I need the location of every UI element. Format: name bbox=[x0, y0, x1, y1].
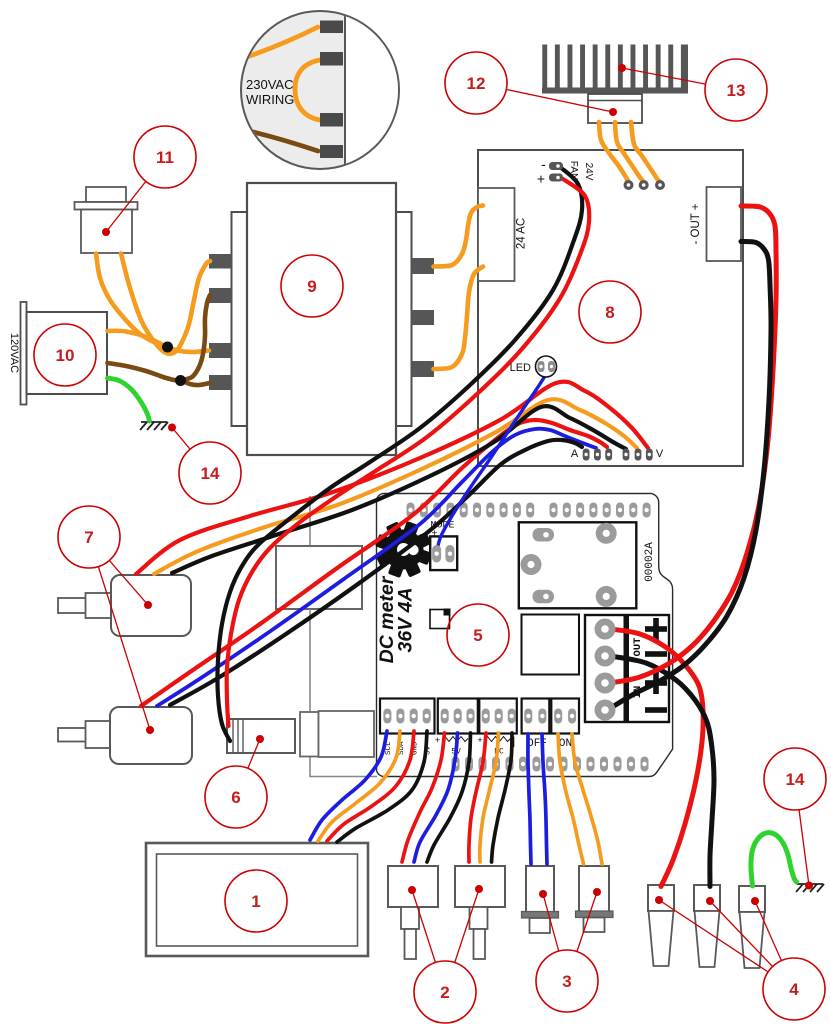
terminal block2 5V bbox=[438, 699, 478, 734]
USB connector bbox=[276, 546, 362, 609]
wire blue switchB to pin A2 bbox=[157, 429, 596, 706]
terminal mag 2 bbox=[320, 52, 343, 66]
svg-text:8: 8 bbox=[605, 303, 614, 322]
terminal block5 ON bbox=[551, 699, 579, 734]
connector 3b bbox=[576, 866, 614, 932]
pad row top group1 bbox=[407, 503, 535, 518]
callout circle 9 bbox=[281, 255, 343, 317]
wire black buttonB bbox=[492, 733, 513, 862]
svg-text:10: 10 bbox=[56, 346, 75, 365]
wire blue buttonA bbox=[414, 733, 458, 862]
callout circle 4 bbox=[763, 958, 825, 1020]
wire brown mag bbox=[236, 128, 318, 151]
wire orange transformer R3 to 24AC bbox=[434, 267, 484, 370]
svg-text:LED: LED bbox=[510, 362, 531, 374]
push button 2b bbox=[455, 866, 505, 959]
wire blue OFF b bbox=[542, 734, 547, 864]
connector 24AC bbox=[478, 188, 515, 281]
AC inlet 10 bbox=[8, 302, 107, 405]
terminal mag 1 bbox=[320, 21, 343, 34]
wire blue display bbox=[310, 731, 387, 840]
wire red FAN to barrel bbox=[227, 179, 590, 726]
wire black OUTminus to probe B bbox=[610, 656, 714, 887]
switch 7b bbox=[58, 707, 192, 764]
pin L3 bbox=[209, 343, 232, 358]
arduino edge above USB bbox=[309, 496, 311, 546]
svg-text:9: 9 bbox=[307, 277, 316, 296]
callout circle 12 bbox=[445, 52, 507, 114]
svg-text:120VAC: 120VAC bbox=[8, 333, 20, 373]
wire orange junction to pin L3 bbox=[167, 347, 209, 352]
terminal block4 OFF bbox=[522, 699, 550, 734]
pin R1 bbox=[412, 258, 435, 274]
svg-text:14: 14 bbox=[201, 464, 220, 483]
pin R2 bbox=[412, 310, 435, 325]
wire orange fuse11 to pin L1 bbox=[121, 254, 210, 354]
display 1 bbox=[146, 843, 368, 956]
callout circle 14 left bbox=[179, 442, 241, 504]
line to 13 bbox=[622, 68, 736, 90]
wire black switchA to pin V1 bbox=[172, 406, 626, 573]
FAN pads bbox=[549, 162, 563, 182]
wire orange mag top bbox=[238, 27, 318, 60]
transformer T1 bbox=[209, 183, 434, 455]
gear icon bbox=[353, 499, 455, 601]
wire red buttonA bbox=[402, 733, 445, 862]
wire red switchB to pin A3 bbox=[141, 420, 607, 706]
pin L4 bbox=[209, 375, 232, 390]
terminal mag 4 bbox=[320, 145, 343, 158]
junction dot orange bbox=[162, 342, 173, 353]
wire orange mag U bbox=[295, 60, 320, 120]
wire black switchB to pin A1 bbox=[170, 440, 582, 705]
wire orange ON a bbox=[558, 734, 584, 864]
LED bbox=[510, 356, 557, 377]
probe 4b bbox=[694, 885, 720, 967]
svg-text:14: 14 bbox=[786, 770, 805, 789]
svg-text:+: + bbox=[477, 735, 483, 746]
svg-text:24 AC: 24 AC bbox=[516, 218, 528, 249]
labels block1 bbox=[385, 741, 433, 755]
wire green to ground left bbox=[108, 378, 150, 421]
wire brown junction2 to pin L2 bbox=[181, 295, 210, 381]
svg-text:5: 5 bbox=[473, 626, 482, 645]
DC meter board U1 bbox=[376, 493, 672, 776]
wire red OUTplus to probe A bbox=[610, 629, 703, 887]
wire orange transformer R1 to 24AC bbox=[434, 206, 484, 267]
terminal block IN OUT bbox=[585, 615, 669, 722]
wire black buttonA bbox=[427, 733, 471, 862]
callout circle 6 bbox=[205, 766, 267, 828]
callout circle 3 bbox=[536, 950, 598, 1012]
callout circle 13 bbox=[705, 59, 767, 121]
svg-text:3: 3 bbox=[562, 972, 571, 991]
wire blue LED to MODE bbox=[437, 369, 550, 550]
wire orange ON b bbox=[572, 734, 602, 864]
svg-text:7: 7 bbox=[84, 528, 93, 547]
IN OUT terminals bbox=[595, 619, 616, 721]
labels block2 bbox=[435, 735, 471, 757]
svg-text:13: 13 bbox=[727, 81, 746, 100]
terminal block3 DC bbox=[479, 699, 517, 734]
wire orange module a bbox=[599, 122, 629, 182]
wire orange inlet10 to junction bbox=[108, 331, 168, 347]
push button 2a bbox=[388, 866, 438, 959]
wire red display bbox=[327, 731, 414, 841]
callout circle 11 bbox=[134, 126, 196, 188]
svg-text:4: 4 bbox=[789, 980, 799, 999]
wire orange buttonB bbox=[480, 733, 499, 862]
MODE pads bbox=[432, 545, 454, 563]
wire black PSU OUT to INminus bbox=[613, 242, 771, 707]
minus in bbox=[645, 707, 667, 713]
svg-text:WIRING: WIRING bbox=[246, 92, 294, 107]
pin L1 bbox=[209, 254, 232, 269]
svg-text:A: A bbox=[571, 448, 579, 460]
wire orange module c bbox=[631, 122, 660, 182]
pad row top group2 bbox=[550, 503, 651, 518]
module 12 regulator bbox=[588, 94, 642, 123]
arduino edge below USB bbox=[309, 609, 311, 711]
labels block3 bbox=[477, 735, 513, 757]
svg-text:OUT: OUT bbox=[632, 638, 644, 657]
wire orange fuse11 to junction bbox=[96, 254, 167, 348]
wire brown inlet10 to junction2 bbox=[108, 363, 182, 381]
probe 4c bbox=[739, 886, 765, 968]
line to 6 bbox=[236, 739, 260, 797]
svg-text:24V: 24V bbox=[583, 163, 594, 181]
wire orange switchA to pin V2 bbox=[154, 399, 637, 574]
svg-text:36V 4A: 36V 4A bbox=[395, 587, 417, 652]
callout circle 2 bbox=[414, 961, 476, 1023]
AV pins bbox=[583, 449, 653, 461]
minus out bbox=[645, 651, 667, 657]
svg-text:+: + bbox=[435, 735, 441, 746]
callout circle 5 bbox=[447, 604, 509, 666]
svg-text:+: + bbox=[537, 171, 545, 187]
arduino edge bottom bbox=[310, 757, 377, 777]
svg-text:- OUT +: - OUT + bbox=[690, 203, 702, 244]
terminal block1 display bbox=[380, 699, 435, 734]
lines to 2 bbox=[412, 890, 445, 992]
callout circle 7 bbox=[58, 506, 120, 568]
line to 11 bbox=[106, 157, 165, 232]
switch 7a bbox=[58, 575, 191, 636]
svg-text:ON: ON bbox=[559, 738, 572, 750]
line to 12 bbox=[476, 83, 613, 112]
wire brown junction2 to pin L4 bbox=[181, 381, 210, 386]
fan wire terminals bbox=[624, 180, 666, 190]
lines to 7 bbox=[89, 537, 148, 605]
callout circle 14 right bbox=[764, 748, 826, 810]
connector OUT bbox=[707, 187, 742, 261]
svg-text:6: 6 bbox=[231, 788, 240, 807]
component small box bbox=[430, 609, 451, 629]
heatsink bbox=[542, 45, 688, 94]
pin L2 bbox=[209, 288, 232, 303]
connector 3a bbox=[522, 866, 559, 933]
relay K1 bbox=[519, 522, 637, 608]
terminal mag 3 bbox=[320, 113, 343, 127]
wire black FAN to barrel bbox=[217, 167, 582, 741]
wire red switchA to pin V3 bbox=[136, 382, 648, 574]
component box under relay bbox=[522, 615, 580, 675]
svg-text:V: V bbox=[656, 448, 664, 460]
pad row bottom bbox=[452, 757, 649, 772]
line to 14 right bbox=[795, 779, 809, 886]
svg-text:00002A: 00002A bbox=[644, 542, 656, 582]
power jack bbox=[300, 711, 374, 757]
callout circle 8 bbox=[579, 281, 641, 343]
wire blue OFF a bbox=[528, 734, 531, 864]
callout circle 10 bbox=[34, 324, 96, 386]
svg-text:1: 1 bbox=[251, 892, 260, 911]
wire red buttonB bbox=[469, 733, 486, 862]
wire orange display bbox=[318, 731, 400, 841]
svg-text:12: 12 bbox=[467, 74, 486, 93]
magnifier detail circle 230VAC wiring bbox=[236, 8, 405, 172]
callout circle 1 bbox=[225, 870, 287, 932]
line to 14 left bbox=[172, 428, 210, 474]
svg-text:11: 11 bbox=[156, 148, 174, 167]
wire orange module b bbox=[615, 122, 644, 182]
probe 4a bbox=[648, 885, 674, 966]
ground symbol 14 left bbox=[140, 422, 168, 430]
barrel plug 6 bbox=[227, 719, 295, 753]
lines to 4 bbox=[659, 900, 794, 989]
wire red PSU OUT to INplus bbox=[613, 206, 776, 683]
plus in bbox=[645, 680, 667, 686]
PSU board U2 bbox=[478, 150, 743, 466]
svg-text:2: 2 bbox=[440, 983, 449, 1002]
ground symbol 14 right bbox=[796, 884, 824, 892]
plus out bbox=[645, 626, 667, 632]
pin R3 bbox=[412, 361, 435, 377]
wire green jumper probeC to ground right bbox=[751, 833, 797, 886]
junction dot brown bbox=[175, 375, 186, 386]
lines to 3 bbox=[543, 894, 567, 981]
connector MODE bbox=[430, 536, 457, 570]
fuse holder 11 bbox=[75, 187, 138, 253]
wire black display bbox=[337, 731, 427, 842]
svg-text:230VAC: 230VAC bbox=[246, 77, 293, 92]
